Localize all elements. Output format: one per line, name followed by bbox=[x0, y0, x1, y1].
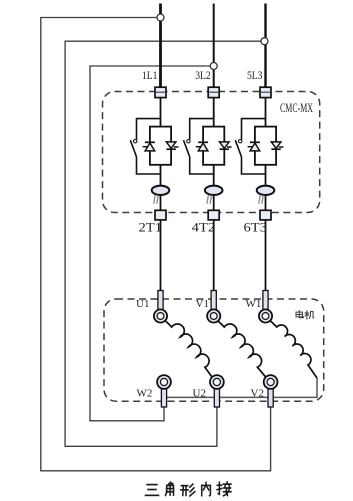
SCR V3b (conducts down) triangle bbox=[271, 142, 281, 148]
thyristor module box phase 1 bbox=[150, 127, 171, 165]
SCR V2a gate bbox=[196, 146, 201, 148]
wire L1 square-to-SCR-module bbox=[160, 92, 162, 127]
motor winding U1-U2 bbox=[165, 321, 212, 378]
SCR V3a (conducts up) cathode bar bbox=[250, 141, 260, 143]
terminal 5L3 square bbox=[260, 87, 271, 97]
SCR V1b (conducts down) triangle bbox=[166, 142, 176, 148]
SCR V2a triangle bbox=[198, 143, 208, 151]
svg-text:V2: V2 bbox=[251, 388, 264, 400]
motor terminal W2 ring bbox=[157, 375, 171, 389]
terminal 4T2 square bbox=[208, 210, 219, 220]
svg-text:U1: U1 bbox=[136, 298, 149, 310]
label 电机 (motor) bbox=[296, 311, 314, 320]
wire L2 CT-to-lower-terminal bbox=[213, 220, 215, 293]
bypass contact K1 moving blade bbox=[130, 140, 136, 157]
SCR V1a triangle bbox=[145, 143, 155, 151]
svg-text:3L2: 3L2 bbox=[195, 68, 211, 82]
svg-text:W2: W2 bbox=[137, 388, 153, 400]
thyristor module box phase 3 bbox=[255, 127, 276, 165]
motor winding W1-W2 bbox=[270, 321, 317, 378]
motor terminal V2 ring bbox=[264, 375, 278, 389]
svg-text:W1: W1 bbox=[246, 298, 262, 310]
bypass contact K2 moving blade bbox=[184, 140, 190, 157]
motor terminal W1 stud bbox=[263, 291, 268, 311]
node L1 tap circle bbox=[157, 14, 164, 21]
SCR V1b gate bbox=[174, 146, 179, 148]
CT1 secondary leads bbox=[154, 195, 156, 204]
motor winding V1-V2 bbox=[218, 321, 266, 378]
soft starter CMC-MX dashed enclosure bbox=[103, 92, 320, 213]
terminal 6T3 square bbox=[260, 210, 271, 220]
SCR V1a (conducts up) cathode bar bbox=[145, 141, 155, 143]
thyristor module box phase 2 bbox=[203, 127, 224, 165]
SCR V2b cathode bar bbox=[220, 148, 229, 150]
svg-text:6T3: 6T3 bbox=[244, 219, 268, 234]
wire L1 CT-to-lower-terminal bbox=[160, 220, 162, 293]
SCR V3a triangle bbox=[250, 143, 260, 151]
SCR V1a gate bbox=[143, 146, 148, 148]
bypass contact K2 fixed terminal circle bbox=[187, 140, 190, 143]
motor terminal U1 stud bbox=[158, 291, 163, 311]
wire supply line L3 upper bbox=[264, 4, 266, 93]
bypass contact K3 moving blade bbox=[235, 140, 241, 157]
motor terminal U1 ring bbox=[154, 309, 167, 322]
wire L2 square-to-SCR-module bbox=[213, 92, 215, 127]
bypass contact K3 wiring bbox=[242, 119, 266, 140]
wire supply line L1 upper bbox=[159, 4, 162, 93]
CT2 secondary leads bbox=[207, 195, 209, 204]
svg-text:2T1: 2T1 bbox=[139, 219, 163, 234]
svg-text:4T2: 4T2 bbox=[192, 219, 216, 234]
motor dashed enclosure bbox=[104, 299, 324, 401]
SCR V1b cathode bar bbox=[166, 148, 175, 150]
terminal 2T1 square bbox=[155, 210, 166, 220]
wire supply line L2 upper bbox=[213, 4, 215, 93]
bypass contact K2 wiring bbox=[190, 119, 214, 140]
SCR V2b (conducts down) triangle bbox=[220, 142, 230, 148]
bypass contact K3 fixed terminal circle bbox=[239, 140, 242, 143]
terminal 3L2 square bbox=[208, 87, 219, 97]
wire U2-to-L3 middle delta loop bbox=[65, 41, 261, 446]
SCR V3a gate bbox=[248, 146, 253, 148]
current transformer CT1 ellipse bbox=[152, 186, 170, 195]
caption 三角形内接 (delta inner connection) bbox=[146, 482, 232, 496]
motor terminal V2 stud bbox=[268, 388, 273, 407]
bypass contact K1 wiring bbox=[137, 119, 161, 140]
current transformer CT2 ellipse bbox=[205, 186, 223, 195]
SCR V3b gate bbox=[279, 146, 284, 148]
bypass contact K1 fixed terminal circle bbox=[134, 140, 137, 143]
terminal 1L1 square bbox=[155, 87, 166, 97]
wire L1 SCR-to-CT bbox=[160, 165, 162, 211]
wire L3 square-to-SCR-module bbox=[265, 92, 267, 127]
motor terminal U2 ring bbox=[210, 375, 224, 389]
wire W2-to-L2 inner delta loop bbox=[90, 66, 210, 421]
svg-text:V1: V1 bbox=[196, 298, 209, 310]
wire L2 SCR-to-CT bbox=[213, 165, 215, 211]
motor terminal V1 ring bbox=[207, 309, 220, 322]
node L2 tap circle bbox=[210, 63, 217, 70]
SCR V3b cathode bar bbox=[271, 148, 280, 150]
svg-text:CMC-MX: CMC-MX bbox=[280, 100, 313, 115]
wire L3 CT-to-lower-terminal bbox=[265, 220, 267, 293]
CT3 secondary leads bbox=[259, 195, 261, 204]
svg-text:U2: U2 bbox=[193, 388, 206, 400]
motor terminal W2 stud bbox=[161, 388, 166, 407]
motor terminal V1 stud bbox=[211, 291, 216, 311]
SCR V2a (conducts up) cathode bar bbox=[198, 141, 208, 143]
wire winding-W return to W2 bbox=[167, 378, 317, 397]
wire L3 SCR-to-CT bbox=[265, 165, 267, 211]
motor terminal W1 ring bbox=[259, 309, 272, 322]
svg-text:5L3: 5L3 bbox=[247, 68, 263, 82]
svg-text:1L1: 1L1 bbox=[142, 68, 158, 82]
wire V2-to-L1 outer delta loop bbox=[41, 18, 271, 471]
SCR V2b gate bbox=[227, 146, 232, 148]
current transformer CT3 ellipse bbox=[257, 186, 275, 195]
node L3 tap circle bbox=[261, 38, 268, 45]
motor terminal U2 stud bbox=[214, 388, 219, 407]
